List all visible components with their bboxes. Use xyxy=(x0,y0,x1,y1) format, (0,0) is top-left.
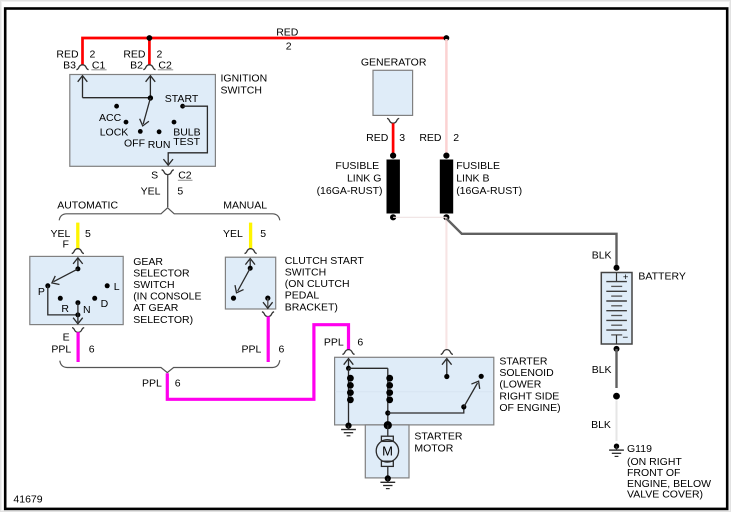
node coil2 tap xyxy=(385,410,390,415)
node gear output junction xyxy=(75,312,80,317)
svg-text:YEL: YEL xyxy=(141,186,161,198)
svg-text:RUN: RUN xyxy=(148,139,171,151)
table row line (faint) xyxy=(335,391,493,393)
svg-text:RIGHT SIDE: RIGHT SIDE xyxy=(499,390,559,402)
wire solenoid battery input xyxy=(446,360,448,377)
svg-text:OF ENGINE): OF ENGINE) xyxy=(499,402,560,414)
wire solenoid coil link xyxy=(349,367,388,369)
svg-text:2: 2 xyxy=(453,132,459,144)
node ignition pivot xyxy=(148,95,153,100)
svg-text:SWITCH: SWITCH xyxy=(285,267,326,279)
svg-text:BATTERY: BATTERY xyxy=(638,271,685,283)
wire gear input xyxy=(77,259,79,269)
svg-text:B2: B2 xyxy=(130,60,143,72)
svg-text:GEAR: GEAR xyxy=(133,256,163,268)
solenoid contact arm xyxy=(464,383,478,407)
svg-text:PEDAL: PEDAL xyxy=(285,290,320,302)
svg-text:−: − xyxy=(622,332,628,343)
svg-text:(16GA-RUST): (16GA-RUST) xyxy=(317,185,383,197)
svg-text:PPL: PPL xyxy=(51,344,71,356)
svg-text:IGNITION: IGNITION xyxy=(221,73,268,85)
svg-text:SOLENOID: SOLENOID xyxy=(499,367,554,379)
svg-text:N: N xyxy=(83,304,91,316)
svg-text:VALVE COVER): VALVE COVER) xyxy=(627,489,703,501)
svg-text:SWITCH: SWITCH xyxy=(133,279,174,291)
svg-text:2: 2 xyxy=(286,40,292,52)
connector gear selector top xyxy=(72,249,84,254)
wire ignition B2 terminal xyxy=(149,77,151,98)
wire P to output xyxy=(48,286,78,315)
svg-text:LINK B: LINK B xyxy=(456,173,489,185)
svg-text:6: 6 xyxy=(175,378,181,390)
ground G119 xyxy=(614,444,619,449)
svg-text:E: E xyxy=(63,332,70,344)
svg-text:FUSIBLE: FUSIBLE xyxy=(456,160,500,172)
svg-text:PPL: PPL xyxy=(142,378,162,390)
wire PPL 6 to solenoid xyxy=(167,325,348,400)
svg-text:BLK: BLK xyxy=(592,250,612,262)
gear selector switch box xyxy=(30,256,123,324)
connector generator output xyxy=(387,118,399,123)
svg-text:5: 5 xyxy=(85,228,91,240)
svg-text:STARTER: STARTER xyxy=(414,431,462,443)
wire clutch input xyxy=(249,260,251,268)
merge brace xyxy=(60,360,280,372)
connector E xyxy=(72,328,84,333)
wire solenoid S input xyxy=(348,360,350,368)
wire BLK link B to battery xyxy=(446,219,616,266)
coil 2 (hold-in winding) xyxy=(387,368,389,425)
node ACC xyxy=(114,104,119,109)
node solenoid S xyxy=(346,366,351,371)
node R xyxy=(58,296,63,301)
svg-text:BLK: BLK xyxy=(592,364,612,376)
svg-text:5: 5 xyxy=(260,228,266,240)
svg-text:S: S xyxy=(151,170,158,182)
wire RED 2 top feed xyxy=(83,38,447,65)
svg-text:5: 5 xyxy=(177,186,183,198)
svg-text:AT GEAR: AT GEAR xyxy=(133,302,179,314)
svg-text:RED: RED xyxy=(276,26,299,38)
node BLK junction xyxy=(613,393,620,400)
connector C2 xyxy=(143,65,155,70)
wire to contact pivot xyxy=(388,407,464,413)
starter solenoid box xyxy=(335,357,494,425)
svg-text:(16GA-RUST): (16GA-RUST) xyxy=(456,185,522,197)
svg-text:6: 6 xyxy=(357,337,363,349)
node junction top red right corner xyxy=(444,35,450,41)
connector clutch switch top xyxy=(245,249,257,254)
svg-text:ACC: ACC xyxy=(99,112,122,124)
clutch start switch box xyxy=(225,257,275,309)
svg-text:(IN CONSOLE: (IN CONSOLE xyxy=(133,291,201,303)
node clutch lower left xyxy=(231,296,236,301)
node contact upper xyxy=(479,374,484,379)
wire YEL 5 F (automatic) xyxy=(76,223,79,249)
node clutch output xyxy=(265,296,270,301)
node N xyxy=(75,300,80,305)
motor armature xyxy=(387,425,389,435)
svg-text:START: START xyxy=(165,93,199,105)
node contact pivot xyxy=(461,404,466,409)
svg-text:F: F xyxy=(62,239,68,251)
svg-text:6: 6 xyxy=(89,344,95,356)
svg-text:3: 3 xyxy=(399,132,405,144)
svg-text:MOTOR: MOTOR xyxy=(414,443,453,455)
battery internal symbol xyxy=(616,273,618,282)
node solenoid to motor xyxy=(384,421,392,429)
svg-text:MANUAL: MANUAL xyxy=(223,199,267,211)
node battery negative xyxy=(614,346,620,352)
battery box xyxy=(601,273,632,345)
svg-text:6: 6 xyxy=(279,343,285,355)
svg-text:SELECTOR): SELECTOR) xyxy=(133,314,193,326)
svg-text:41679: 41679 xyxy=(13,494,42,506)
wire ignition B3 terminal xyxy=(83,97,151,99)
switch arm clutch xyxy=(238,268,251,291)
wire START to S output xyxy=(168,106,207,164)
ground solenoid xyxy=(345,423,351,429)
node START xyxy=(180,104,185,109)
generator box xyxy=(373,70,413,115)
fusible link B xyxy=(443,153,449,159)
svg-text:(LOWER: (LOWER xyxy=(499,379,541,391)
node clutch input xyxy=(248,266,253,271)
svg-text:G119: G119 xyxy=(627,443,652,455)
node RUN xyxy=(157,129,162,134)
wire RED 2 to link B (faint) xyxy=(445,39,448,156)
wire YEL 5 from ignition xyxy=(167,175,169,207)
wire BLK battery negative xyxy=(615,349,617,388)
node D xyxy=(92,296,97,301)
node LOCK xyxy=(124,120,129,125)
wire PPL 6 (gear) xyxy=(76,332,79,362)
svg-text:OFF: OFF xyxy=(124,138,145,150)
svg-text:B3: B3 xyxy=(63,60,76,72)
svg-text:BRACKET): BRACKET) xyxy=(285,301,338,313)
ignition switch box xyxy=(70,75,216,167)
svg-text:AUTOMATIC: AUTOMATIC xyxy=(57,199,118,211)
switch arm to P xyxy=(54,269,78,282)
fusible link G xyxy=(390,153,396,159)
svg-text:SELECTOR: SELECTOR xyxy=(133,267,190,279)
node OFF xyxy=(138,129,143,134)
wire PPL 6 (clutch) xyxy=(267,316,270,362)
split brace automatic/manual xyxy=(59,208,280,221)
node BULB TEST xyxy=(172,120,177,125)
wire RED 3 xyxy=(392,123,395,155)
svg-text:PPL: PPL xyxy=(241,343,261,355)
svg-text:L: L xyxy=(114,281,120,293)
svg-text:TEST: TEST xyxy=(173,136,200,148)
ground starter motor xyxy=(385,475,391,481)
svg-text:FUSIBLE: FUSIBLE xyxy=(335,160,379,172)
connector C1 xyxy=(76,65,88,70)
svg-text:P: P xyxy=(38,286,45,298)
svg-text:RED: RED xyxy=(419,132,442,144)
svg-text:YEL: YEL xyxy=(223,228,243,240)
svg-text:LINK G: LINK G xyxy=(347,173,381,185)
svg-text:PPL: PPL xyxy=(324,337,344,349)
svg-text:SWITCH: SWITCH xyxy=(221,85,262,97)
wire RED 2 stub to C2 xyxy=(148,38,151,65)
wire BLK faint to ground xyxy=(616,401,618,442)
connector solenoid S terminal xyxy=(342,350,354,355)
wire gear output xyxy=(77,303,79,323)
svg-text:R: R xyxy=(61,303,69,315)
wire faint link G to link B xyxy=(393,216,446,218)
svg-text:D: D xyxy=(101,298,109,310)
starter motor box xyxy=(365,425,409,478)
node L xyxy=(105,283,110,288)
connector solenoid battery terminal xyxy=(441,350,453,355)
svg-text:CLUTCH START: CLUTCH START xyxy=(285,255,365,267)
node solenoid battery terminal xyxy=(444,374,449,379)
svg-text:BLK: BLK xyxy=(591,419,611,431)
connector S C2 xyxy=(162,170,174,175)
node junction top red at C2 branch xyxy=(147,35,153,41)
wire faint RED to solenoid xyxy=(445,217,447,349)
coil 1 (pull-in winding) xyxy=(348,368,350,425)
node P xyxy=(45,283,50,288)
node battery positive xyxy=(614,265,620,271)
wire clutch output xyxy=(267,298,269,307)
svg-text:STARTER: STARTER xyxy=(499,356,547,368)
svg-text:M: M xyxy=(382,444,393,459)
connector clutch bottom xyxy=(262,312,274,317)
node gear input xyxy=(75,266,80,271)
wire YEL 5 (manual) xyxy=(249,223,252,249)
svg-text:GENERATOR: GENERATOR xyxy=(361,56,427,68)
svg-text:RED: RED xyxy=(366,132,389,144)
svg-text:(ON CLUTCH: (ON CLUTCH xyxy=(285,278,350,290)
switch arm to OFF xyxy=(143,98,150,124)
